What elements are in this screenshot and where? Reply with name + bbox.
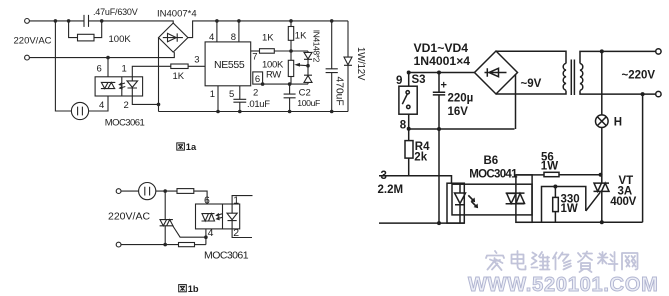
svg-text:4: 4 bbox=[99, 100, 104, 111]
zener diode 1W/12V bbox=[344, 21, 352, 112]
VT gate lead bbox=[586, 192, 601, 211]
MOC3061 inner divider bbox=[121, 77, 123, 96]
watermark hanzi xiu bbox=[553, 253, 571, 270]
wire: parallel loop for 100K resistor bbox=[69, 21, 102, 38]
svg-text:3: 3 bbox=[194, 55, 199, 66]
wire: NE555 pin 5 to cap bbox=[239, 86, 241, 100]
wire: pin 2 of MOC3061 to ground line bbox=[132, 96, 158, 104]
svg-text:IN4148*2: IN4148*2 bbox=[312, 30, 322, 63]
MOC3061 LED bbox=[127, 77, 138, 96]
svg-text:1: 1 bbox=[122, 64, 127, 75]
resistor 1K (vertical from rail) bbox=[290, 21, 292, 51]
svg-text:MOC3041: MOC3041 bbox=[469, 169, 518, 181]
wire: lamp branch down bbox=[601, 51, 603, 115]
MOC3041 triac cell box bbox=[516, 175, 532, 222]
svg-text:2: 2 bbox=[253, 88, 258, 99]
wire: load to MOC pin 4 bbox=[89, 96, 108, 111]
svg-text:IN4007*4: IN4007*4 bbox=[157, 9, 197, 20]
wire: NE555 pin 7 to 1K bbox=[251, 50, 260, 52]
svg-text:8: 8 bbox=[231, 32, 236, 43]
MOC3041 photo-triac symbol bbox=[506, 193, 525, 204]
svg-text:1a: 1a bbox=[186, 142, 197, 152]
transformer secondary coil bbox=[580, 64, 583, 91]
svg-text:1: 1 bbox=[210, 89, 215, 100]
junction dots figure 1b bbox=[163, 189, 207, 246]
svg-text:6: 6 bbox=[204, 194, 210, 206]
wire: common rail down bbox=[438, 129, 440, 223]
watermark hanzi liao bbox=[598, 252, 618, 271]
junction dots figure 1a bbox=[54, 19, 334, 113]
capacitor .01uF bbox=[233, 99, 246, 111]
svg-text:NE555: NE555 bbox=[214, 59, 245, 71]
wire: NE555 pin 1 to ground bbox=[217, 86, 219, 112]
diode IN4148 D2 bbox=[304, 66, 312, 84]
wire: S3 to bottom rail bbox=[408, 114, 410, 129]
svg-text:1W/12V: 1W/12V bbox=[355, 47, 366, 81]
capacitor .47uF/630V plates bbox=[84, 15, 89, 27]
MOC3061 photo-triac symbol bbox=[202, 214, 215, 221]
diode IN4148 D1 bbox=[304, 51, 312, 66]
wire: pin4 gate run bbox=[542, 187, 586, 223]
MOC3061 light arrows bbox=[119, 83, 125, 89]
MOC3061 photo-triac symbol bbox=[101, 82, 115, 88]
capacitor C2 100uF bbox=[284, 84, 296, 111]
optocoupler MOC3061 body (fig1b) bbox=[196, 204, 240, 229]
svg-text:1W: 1W bbox=[561, 203, 578, 215]
svg-text:1: 1 bbox=[233, 194, 239, 206]
svg-text:6: 6 bbox=[97, 64, 102, 75]
svg-text:1K: 1K bbox=[262, 32, 274, 43]
labels figure 1b bbox=[108, 194, 249, 261]
wire: secondary top to output terminal bbox=[580, 51, 656, 63]
svg-text:1b: 1b bbox=[188, 284, 199, 294]
switch S3 stub bbox=[408, 73, 410, 87]
MOC3041 LED bbox=[455, 183, 466, 223]
svg-text:6: 6 bbox=[255, 74, 260, 85]
wire: bridge right vertex down to DC- rail bbox=[515, 74, 517, 129]
terminal T1 (220V top) bbox=[25, 19, 30, 24]
svg-text:1N4001×4: 1N4001×4 bbox=[414, 54, 471, 68]
watermark hanzi jia bbox=[486, 251, 504, 270]
wire: resistor to MOC pin 6 bbox=[194, 191, 207, 204]
svg-text:.47uF/630V: .47uF/630V bbox=[93, 7, 138, 17]
labels right circuit (serif bold) bbox=[378, 41, 656, 215]
wire: pin 1 out bbox=[232, 196, 252, 204]
wire: secondary bottom to output terminal bbox=[580, 91, 656, 95]
svg-text:2.2M: 2.2M bbox=[378, 184, 404, 196]
transformer core bbox=[571, 60, 574, 96]
wire: pin 2 out bbox=[232, 229, 252, 238]
wire: bridge DC+ to top rail bbox=[188, 21, 348, 38]
wire: load branch from top rail down bbox=[55, 21, 71, 111]
wire: right edge return bbox=[642, 94, 644, 222]
wire: terminal to load bbox=[121, 190, 139, 192]
load socket symbol (circle with two bars) bbox=[71, 102, 88, 119]
triac (discrete) bbox=[160, 220, 173, 226]
caption 图1b glyph bbox=[179, 285, 187, 292]
svg-text:B6: B6 bbox=[484, 155, 499, 167]
terminal T2 (220V bottom) bbox=[25, 55, 30, 60]
MOC3061 light arrows bbox=[216, 214, 222, 220]
wire: pins 2/6 net to RC junction bbox=[263, 83, 308, 85]
svg-text:220V/AC: 220V/AC bbox=[108, 211, 150, 223]
wire: lamp to VT junction bbox=[601, 128, 603, 175]
MOC3041 light arrows bbox=[468, 195, 475, 205]
optocoupler MOC3061 body bbox=[95, 77, 143, 96]
switch S3 contacts and blade bbox=[406, 91, 409, 94]
svg-text:2: 2 bbox=[124, 100, 129, 111]
triac VT bbox=[594, 175, 610, 223]
MOC3041 main body bbox=[452, 184, 532, 215]
resistor (bottom series) bbox=[179, 243, 195, 247]
wire: pin 1 of MOC3061 to 1K resistor bbox=[132, 66, 171, 77]
watermark hanzi zi bbox=[578, 252, 592, 273]
svg-text:470uF: 470uF bbox=[334, 77, 345, 106]
resistor R4 2k bbox=[408, 129, 410, 141]
wire: bottom line bbox=[121, 244, 179, 246]
svg-text:5: 5 bbox=[229, 89, 234, 100]
terminal T4 bbox=[116, 242, 121, 247]
RW wiper arrow bbox=[297, 64, 309, 67]
labels figure 1a bbox=[14, 7, 367, 129]
svg-text:7: 7 bbox=[252, 51, 257, 62]
svg-text:.01uF: .01uF bbox=[247, 99, 270, 110]
svg-text:9: 9 bbox=[396, 75, 402, 87]
svg-text:4: 4 bbox=[208, 227, 214, 239]
wire: MT2 bottom line bbox=[516, 221, 643, 223]
svg-text:100K: 100K bbox=[109, 34, 132, 45]
potentiometer RW 100K bbox=[290, 51, 292, 84]
wire: MOC pin 4 stub bbox=[205, 229, 207, 245]
svg-text:8: 8 bbox=[400, 119, 407, 131]
wire: bridge DC- down to ground rail bbox=[158, 38, 160, 112]
terminal 220V bottom bbox=[656, 91, 661, 96]
wire: pin 6 of MOC3061 up to AC line bbox=[107, 58, 109, 77]
terminal 220V top bbox=[656, 49, 661, 54]
svg-text:MOC3061: MOC3061 bbox=[105, 118, 145, 129]
resistor 330/1W bbox=[554, 187, 556, 223]
svg-text:220V/AC: 220V/AC bbox=[14, 36, 52, 47]
ground rail of NE555 section bbox=[159, 111, 349, 113]
wire: LED drive input bbox=[379, 176, 452, 183]
wire: bottom AC line to bridge bottom vertex bbox=[29, 52, 174, 58]
wire: DC- bottom rail bbox=[409, 128, 515, 130]
wire: control ground line bbox=[379, 222, 464, 224]
svg-text:WWW.520101.COM: WWW.520101.COM bbox=[468, 274, 659, 296]
watermark hanzi wei bbox=[532, 252, 550, 270]
svg-text:H: H bbox=[614, 117, 622, 129]
wire: 56 ohm to VT top bbox=[559, 174, 602, 176]
timer NE555 body bbox=[205, 42, 251, 86]
watermark hanzi wang bbox=[622, 253, 638, 270]
capacitor 470uF bbox=[326, 21, 338, 112]
wire: triac gate to MOC pin 4 bbox=[173, 226, 206, 237]
resistor 1K (gate series) bbox=[171, 64, 188, 69]
wire: bottom resistor to pin4 node bbox=[195, 244, 206, 246]
svg-text:MOC3061: MOC3061 bbox=[204, 250, 249, 262]
wire: 1K to NE555 pin 3 bbox=[188, 65, 205, 67]
svg-text:RW: RW bbox=[266, 69, 281, 80]
junction dots right circuit bbox=[407, 49, 645, 225]
svg-text:+: + bbox=[441, 80, 447, 92]
wire: bridge bottom vertex to transformer primary bbox=[496, 91, 566, 95]
NE555 pin 6 boxed tab bbox=[253, 72, 263, 84]
capacitor 220u/16V bbox=[433, 73, 445, 130]
resistor 56/1W bbox=[544, 172, 559, 176]
svg-text:1K: 1K bbox=[295, 31, 307, 42]
transformer primary coil bbox=[563, 63, 566, 90]
wire: triac branch down bbox=[164, 191, 166, 245]
caption 图1a glyph bbox=[177, 143, 185, 150]
bridge inner diode bbox=[485, 68, 507, 76]
bridge rectifier VD1-VD4 diamond bbox=[475, 51, 518, 94]
svg-text:~220V: ~220V bbox=[622, 69, 656, 81]
svg-text:2: 2 bbox=[233, 227, 239, 239]
wire: MOC pin6 to 56 ohm bbox=[516, 174, 544, 176]
svg-text:~9V: ~9V bbox=[521, 78, 542, 90]
wire: NE555 pin 8 to rail bbox=[238, 21, 240, 42]
svg-text:1K: 1K bbox=[173, 71, 185, 82]
svg-text:S3: S3 bbox=[412, 74, 426, 86]
wire: top AC rail to dropper cap bbox=[29, 20, 84, 22]
watermark hanzi dian bbox=[512, 251, 526, 270]
wire: 1K to RW junction bbox=[274, 50, 308, 52]
MOC3061 LED bbox=[227, 204, 237, 229]
lamp H (circle with X) bbox=[596, 115, 609, 128]
svg-text:100uF: 100uF bbox=[297, 98, 320, 108]
switch S3 box bbox=[399, 86, 417, 114]
svg-text:16V: 16V bbox=[448, 106, 469, 118]
resistor (top series) bbox=[177, 189, 194, 194]
bridge rectifier IN4007*4 diamond bbox=[159, 23, 188, 52]
wire: NE555 pin 4 to rail bbox=[216, 21, 218, 42]
svg-text:2k: 2k bbox=[414, 152, 427, 164]
svg-text:3: 3 bbox=[381, 170, 387, 182]
wire: cap to bridge top vertex bbox=[89, 21, 174, 23]
svg-text:4: 4 bbox=[209, 32, 214, 43]
svg-text:1W: 1W bbox=[541, 161, 558, 173]
wire: bridge top vertex to transformer primary bbox=[496, 51, 566, 63]
load socket symbol bbox=[139, 183, 156, 200]
resistor 1K (discharge) bbox=[260, 49, 275, 54]
wire: +9V top rail bbox=[409, 72, 475, 74]
bridge inner diode bbox=[163, 33, 183, 41]
terminal T3 bbox=[116, 189, 121, 194]
resistor 100K (bleeder) bbox=[78, 34, 95, 41]
wire: load to gate resistor bbox=[156, 190, 177, 192]
svg-text:C2: C2 bbox=[299, 87, 311, 98]
MOC3061 inner divider bbox=[222, 204, 224, 229]
svg-text:400V: 400V bbox=[610, 196, 636, 208]
optocoupler MOC3041 LED cell box bbox=[447, 183, 464, 223]
svg-text:220µ: 220µ bbox=[448, 93, 474, 105]
